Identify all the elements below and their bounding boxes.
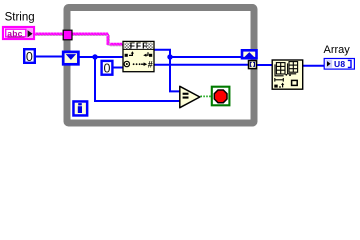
svg-text:0: 0 (26, 50, 33, 64)
svg-text:0: 0 (104, 61, 111, 75)
svg-text:Array: Array (324, 44, 351, 56)
svg-text:String: String (5, 11, 35, 23)
svg-text:U8: U8 (334, 59, 345, 69)
svg-text:#: # (148, 59, 153, 69)
